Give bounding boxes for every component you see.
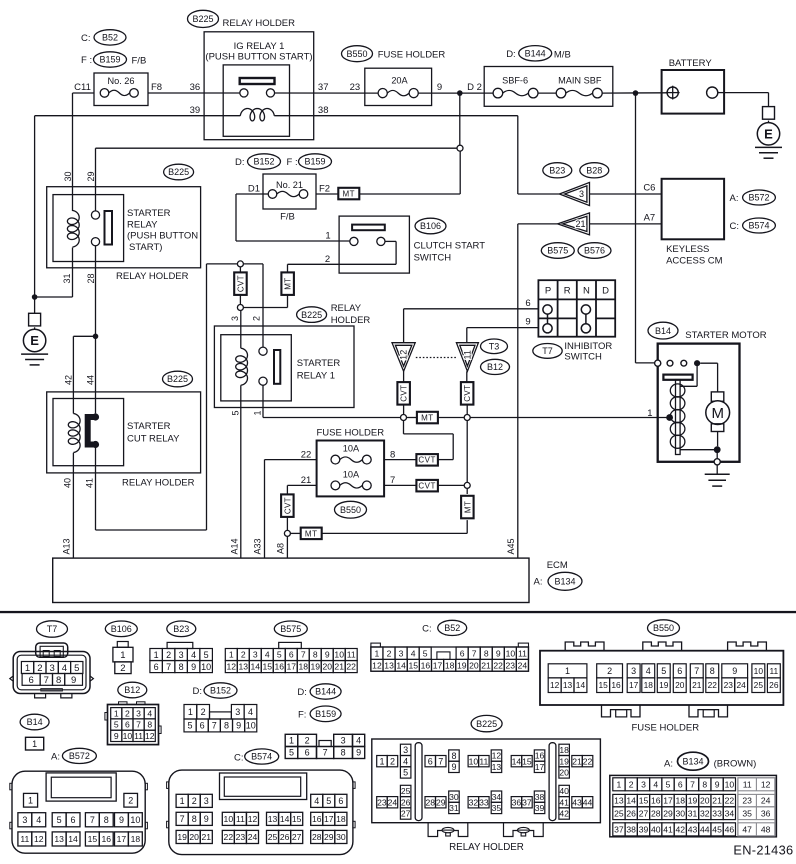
svg-text:C:: C: bbox=[422, 624, 432, 635]
connector B575 bbox=[225, 621, 357, 673]
svg-text:7: 7 bbox=[472, 648, 477, 658]
svg-text:6: 6 bbox=[200, 721, 205, 731]
svg-text:6: 6 bbox=[678, 779, 683, 789]
dotted link arrows 12-11 bbox=[416, 357, 457, 359]
svg-text:21: 21 bbox=[201, 832, 211, 842]
connector A: B134 (BROWN) bbox=[610, 752, 777, 837]
svg-text:19: 19 bbox=[559, 756, 569, 766]
svg-text:3: 3 bbox=[403, 745, 408, 755]
svg-text:24: 24 bbox=[248, 832, 258, 842]
svg-text:20A: 20A bbox=[391, 76, 408, 86]
svg-text:B144: B144 bbox=[525, 48, 546, 58]
label A: B572 bbox=[730, 190, 776, 205]
svg-text:RELAY 1: RELAY 1 bbox=[297, 371, 335, 382]
pin 30 bbox=[63, 171, 73, 181]
wire 6 (inhibitor P) bbox=[404, 309, 539, 343]
pin 42 bbox=[64, 375, 74, 385]
svg-text:14: 14 bbox=[250, 662, 260, 672]
svg-text:21: 21 bbox=[576, 219, 586, 229]
svg-text:10: 10 bbox=[754, 666, 764, 676]
svg-text:34: 34 bbox=[725, 808, 735, 818]
svg-text:(PUSH BUTTON START): (PUSH BUTTON START) bbox=[205, 52, 312, 63]
ground E (left) bbox=[21, 297, 48, 365]
pin A45 bbox=[506, 538, 516, 554]
svg-text:15: 15 bbox=[292, 814, 302, 824]
svg-text:9: 9 bbox=[119, 815, 124, 825]
connector label F: B159 F/B bbox=[81, 52, 146, 67]
svg-text:B572: B572 bbox=[69, 751, 90, 761]
pin A8 bbox=[276, 543, 286, 554]
wire 38 (IG relay coil right) bbox=[274, 116, 518, 194]
svg-text:8: 8 bbox=[341, 748, 346, 758]
CVT tag (wire 21) bbox=[281, 494, 294, 530]
pin 41 label bbox=[85, 478, 95, 488]
svg-text:2: 2 bbox=[629, 779, 634, 789]
svg-text:INHIBITOR: INHIBITOR bbox=[564, 341, 612, 352]
wire joint down to MT wire bbox=[459, 151, 461, 194]
svg-text:A:: A: bbox=[51, 752, 60, 763]
svg-text:38: 38 bbox=[626, 824, 636, 834]
svg-text:START): START) bbox=[129, 242, 162, 253]
svg-text:13: 13 bbox=[239, 662, 249, 672]
svg-text:13: 13 bbox=[492, 762, 502, 772]
svg-text:17: 17 bbox=[433, 660, 443, 670]
svg-text:13: 13 bbox=[54, 834, 64, 844]
connector B14 bbox=[20, 714, 49, 750]
pin 9 (inhibitor) bbox=[525, 317, 530, 328]
svg-text:41: 41 bbox=[85, 478, 95, 488]
svg-text:16: 16 bbox=[611, 680, 621, 690]
svg-text:D:: D: bbox=[297, 687, 307, 698]
junction battery feed bbox=[633, 90, 639, 96]
svg-text:7: 7 bbox=[90, 815, 95, 825]
svg-text:37: 37 bbox=[522, 797, 532, 807]
svg-text:STARTER: STARTER bbox=[127, 421, 171, 432]
svg-text:F/B: F/B bbox=[280, 212, 295, 223]
svg-text:24: 24 bbox=[736, 680, 746, 690]
node D2 bbox=[467, 82, 482, 93]
svg-text:9: 9 bbox=[191, 662, 196, 672]
svg-text:F8: F8 bbox=[151, 82, 162, 93]
svg-text:21: 21 bbox=[572, 756, 582, 766]
svg-text:E: E bbox=[30, 333, 39, 348]
svg-text:B574: B574 bbox=[748, 221, 769, 231]
svg-text:2: 2 bbox=[305, 736, 310, 746]
svg-text:B550: B550 bbox=[653, 623, 674, 633]
svg-text:7: 7 bbox=[166, 662, 171, 672]
svg-text:B225: B225 bbox=[167, 374, 188, 384]
svg-text:1: 1 bbox=[154, 650, 159, 660]
svg-text:42: 42 bbox=[64, 375, 74, 385]
svg-text:HOLDER: HOLDER bbox=[331, 315, 371, 326]
pin 40 bbox=[63, 478, 73, 488]
svg-text:T7: T7 bbox=[47, 624, 58, 634]
svg-text:43: 43 bbox=[572, 797, 582, 807]
connector T7 bbox=[10, 621, 94, 698]
connector B23 bbox=[150, 621, 213, 673]
node D1 bbox=[248, 184, 260, 195]
svg-text:18: 18 bbox=[675, 796, 685, 806]
svg-text:B23: B23 bbox=[549, 165, 565, 175]
svg-text:30: 30 bbox=[675, 808, 685, 818]
svg-text:5: 5 bbox=[188, 721, 193, 731]
pin 8 bbox=[390, 449, 395, 460]
wire F8 to IG relay pin 36 bbox=[148, 92, 240, 94]
pin A14 bbox=[229, 538, 239, 554]
joint circle (wire 7 node) bbox=[464, 482, 470, 488]
ECM (A: B134) bbox=[53, 558, 582, 602]
wire relay1 pin1 to starter motor wire bbox=[263, 385, 401, 418]
svg-text:1: 1 bbox=[565, 666, 570, 676]
wire pin 30 from C11 bbox=[72, 93, 74, 211]
svg-text:22: 22 bbox=[725, 796, 735, 806]
svg-text:20: 20 bbox=[469, 660, 479, 670]
svg-text:ACCESS CM: ACCESS CM bbox=[666, 255, 723, 266]
svg-text:15: 15 bbox=[522, 756, 532, 766]
svg-text:RELAY HOLDER: RELAY HOLDER bbox=[116, 271, 189, 282]
svg-text:1: 1 bbox=[114, 708, 119, 718]
fuse No. 26 (F/B) bbox=[94, 73, 148, 106]
pin 6 bbox=[525, 298, 530, 309]
svg-text:7: 7 bbox=[136, 720, 141, 730]
svg-text:13: 13 bbox=[563, 680, 573, 690]
svg-text:28: 28 bbox=[651, 808, 661, 818]
svg-text:4: 4 bbox=[62, 663, 67, 674]
svg-text:12: 12 bbox=[227, 662, 237, 672]
svg-text:35: 35 bbox=[492, 803, 502, 813]
svg-text:10A: 10A bbox=[343, 470, 360, 480]
svg-text:A:: A: bbox=[534, 577, 543, 588]
relay holder label B225 (IG relay) bbox=[188, 10, 296, 29]
svg-text:A:: A: bbox=[730, 193, 739, 204]
svg-text:5: 5 bbox=[666, 779, 671, 789]
fuse holder 10A (B550) bbox=[317, 441, 385, 497]
svg-text:A33: A33 bbox=[253, 538, 263, 554]
svg-text:5: 5 bbox=[57, 815, 62, 825]
svg-text:11: 11 bbox=[463, 350, 473, 359]
wire D2 down to joint bbox=[459, 93, 461, 145]
svg-text:A13: A13 bbox=[62, 538, 72, 554]
svg-text:2: 2 bbox=[325, 254, 330, 265]
svg-text:2: 2 bbox=[125, 708, 130, 718]
connector C: B52 bbox=[371, 620, 529, 671]
connector B106 bbox=[105, 621, 137, 674]
svg-text:8: 8 bbox=[451, 751, 456, 761]
svg-text:B550: B550 bbox=[340, 505, 361, 515]
svg-text:44: 44 bbox=[86, 375, 96, 385]
svg-text:B14: B14 bbox=[655, 326, 671, 336]
svg-text:9: 9 bbox=[204, 814, 209, 824]
relay K3 STARTER CUT RELAY bbox=[47, 392, 201, 488]
svg-text:16: 16 bbox=[421, 660, 431, 670]
svg-text:5: 5 bbox=[74, 663, 79, 674]
svg-text:21: 21 bbox=[712, 796, 722, 806]
wire MT to starter motor pin 1 bbox=[470, 417, 666, 419]
svg-text:20: 20 bbox=[322, 662, 332, 672]
svg-text:MT: MT bbox=[463, 501, 472, 513]
svg-text:47: 47 bbox=[742, 824, 752, 834]
connector C: B574 (drawing) bbox=[167, 749, 356, 855]
svg-text:No. 21: No. 21 bbox=[276, 180, 303, 190]
svg-text:33: 33 bbox=[712, 808, 722, 818]
wire pin 40 to ECM A13 bbox=[72, 453, 74, 558]
node C6 bbox=[643, 183, 655, 194]
svg-text:7: 7 bbox=[438, 756, 443, 766]
svg-text:40: 40 bbox=[651, 824, 661, 834]
svg-text:9: 9 bbox=[437, 82, 442, 93]
label T7 inhibitor bbox=[533, 344, 562, 359]
joint circle (CVT top) bbox=[237, 261, 243, 267]
svg-text:N: N bbox=[583, 286, 590, 297]
svg-text:2: 2 bbox=[192, 796, 197, 806]
connector D: B152 bbox=[184, 683, 257, 732]
svg-text:6: 6 bbox=[460, 648, 465, 658]
svg-text:12: 12 bbox=[550, 680, 560, 690]
svg-text:9: 9 bbox=[236, 721, 241, 731]
svg-text:5: 5 bbox=[231, 410, 241, 415]
svg-text:33: 33 bbox=[479, 797, 489, 807]
svg-text:RELAY HOLDER: RELAY HOLDER bbox=[223, 18, 296, 29]
svg-text:23: 23 bbox=[236, 832, 246, 842]
MT tag vertical (right riser) bbox=[461, 488, 474, 533]
svg-text:B14: B14 bbox=[27, 717, 43, 727]
connector labels D: B152 F: B159 bbox=[235, 154, 332, 169]
node C11 bbox=[74, 82, 91, 93]
svg-text:46: 46 bbox=[725, 824, 735, 834]
svg-text:2: 2 bbox=[387, 648, 392, 658]
wire pin 28 down bbox=[95, 246, 97, 414]
svg-text:45: 45 bbox=[712, 824, 722, 834]
svg-text:1: 1 bbox=[25, 663, 30, 674]
pin 7 bbox=[390, 475, 395, 486]
svg-text:42: 42 bbox=[559, 809, 569, 819]
svg-text:26: 26 bbox=[401, 797, 411, 807]
svg-text:4: 4 bbox=[265, 650, 270, 660]
svg-text:1: 1 bbox=[289, 736, 294, 746]
svg-text:CUT RELAY: CUT RELAY bbox=[127, 433, 180, 444]
svg-text:44: 44 bbox=[700, 824, 710, 834]
pin 39 bbox=[190, 105, 201, 116]
svg-text:B152: B152 bbox=[210, 686, 231, 696]
svg-text:B12: B12 bbox=[487, 362, 503, 372]
svg-text:31: 31 bbox=[449, 803, 459, 813]
svg-text:4: 4 bbox=[248, 707, 253, 717]
svg-text:3: 3 bbox=[253, 650, 258, 660]
svg-text:7: 7 bbox=[180, 814, 185, 824]
joint circle (A8 node) bbox=[284, 530, 290, 536]
svg-text:12: 12 bbox=[372, 660, 382, 670]
label B550 (10A holder) bbox=[335, 501, 367, 518]
svg-text:26: 26 bbox=[280, 832, 290, 842]
label B23 bbox=[543, 163, 572, 178]
svg-text:5: 5 bbox=[403, 768, 408, 778]
junction 28/44/42 bbox=[93, 334, 99, 340]
svg-text:31: 31 bbox=[688, 808, 698, 818]
wire pin 31 to ground node bbox=[35, 248, 73, 298]
arrow 12 (to CVT) bbox=[392, 343, 415, 372]
svg-text:18: 18 bbox=[131, 834, 141, 844]
svg-text:41: 41 bbox=[559, 797, 569, 807]
svg-text:M/B: M/B bbox=[554, 49, 571, 60]
wire pin 41 to relay1 pin 2 run bbox=[96, 448, 207, 530]
svg-text:A8: A8 bbox=[276, 543, 286, 554]
svg-text:17: 17 bbox=[535, 762, 545, 772]
svg-text:D:: D: bbox=[506, 49, 516, 60]
pin 9 bbox=[437, 82, 442, 93]
svg-text:B106: B106 bbox=[420, 221, 441, 231]
svg-text:(BROWN): (BROWN) bbox=[714, 759, 757, 770]
svg-text:9: 9 bbox=[732, 666, 737, 676]
svg-text:21: 21 bbox=[301, 475, 312, 486]
svg-text:11: 11 bbox=[743, 779, 752, 789]
svg-text:38: 38 bbox=[535, 792, 545, 802]
svg-text:4: 4 bbox=[646, 666, 651, 676]
svg-text:SBF-6: SBF-6 bbox=[502, 75, 528, 85]
svg-text:15: 15 bbox=[262, 662, 272, 672]
svg-text:24: 24 bbox=[761, 796, 771, 806]
label C: B574 bbox=[730, 218, 776, 233]
svg-text:19: 19 bbox=[659, 680, 669, 690]
svg-text:14: 14 bbox=[512, 756, 522, 766]
switch S1 CLUTCH START SWITCH bbox=[288, 216, 410, 273]
svg-text:7: 7 bbox=[694, 666, 699, 676]
arrow 11 (to CVT) bbox=[456, 343, 478, 372]
svg-text:10: 10 bbox=[224, 814, 234, 824]
svg-text:D:: D: bbox=[193, 686, 203, 697]
svg-text:A7: A7 bbox=[644, 212, 656, 223]
wire battery feed down to starter motor bbox=[636, 93, 655, 363]
arrow 21 (keyless A7) bbox=[518, 213, 590, 558]
svg-text:6: 6 bbox=[71, 815, 76, 825]
fuse SBF-6 and MAIN SBF (M/B) bbox=[484, 67, 613, 107]
svg-text:3: 3 bbox=[341, 736, 346, 746]
svg-text:36: 36 bbox=[761, 808, 771, 818]
arrow 3 (keyless C6) bbox=[518, 182, 590, 205]
wire relay1 pin5 to ECM A14 bbox=[240, 385, 242, 558]
wire SBF-6 to MAIN SBF bbox=[538, 92, 556, 94]
svg-text:6: 6 bbox=[525, 298, 530, 309]
svg-text:E: E bbox=[764, 126, 773, 141]
svg-text:STARTER MOTOR: STARTER MOTOR bbox=[685, 330, 766, 341]
pin 29 bbox=[86, 171, 96, 181]
svg-text:34: 34 bbox=[492, 792, 502, 802]
svg-text:27: 27 bbox=[292, 832, 302, 842]
svg-text:A14: A14 bbox=[229, 538, 239, 554]
svg-text:5: 5 bbox=[204, 650, 209, 660]
svg-text:(PUSH BUTTON: (PUSH BUTTON bbox=[127, 231, 198, 242]
svg-text:5: 5 bbox=[289, 748, 294, 758]
wire 8 chain: fuse to CVT riser bbox=[384, 421, 453, 466]
svg-text:7: 7 bbox=[212, 721, 217, 731]
svg-text:25: 25 bbox=[268, 832, 278, 842]
wire 22 to ECM A33 bbox=[265, 460, 317, 558]
wire 7 chain: fuse to CVT to node bbox=[384, 480, 464, 492]
wire C11 to fuse No.26 bbox=[73, 92, 95, 94]
svg-text:19: 19 bbox=[457, 660, 467, 670]
pin A33 bbox=[253, 538, 263, 554]
svg-text:22: 22 bbox=[301, 449, 312, 460]
svg-text:9: 9 bbox=[525, 317, 530, 328]
svg-text:1: 1 bbox=[180, 796, 185, 806]
svg-text:SWITCH: SWITCH bbox=[414, 252, 452, 263]
svg-text:18: 18 bbox=[559, 745, 569, 755]
wire 42 branch bbox=[73, 336, 95, 413]
relay K2 STARTER RELAY 1 bbox=[214, 326, 354, 408]
svg-text:B52: B52 bbox=[444, 623, 460, 633]
svg-text:2: 2 bbox=[201, 707, 206, 717]
svg-text:22: 22 bbox=[493, 660, 503, 670]
svg-text:1: 1 bbox=[379, 756, 384, 766]
svg-text:17: 17 bbox=[663, 796, 673, 806]
pin 23 bbox=[350, 82, 361, 93]
svg-text:40: 40 bbox=[559, 786, 569, 796]
svg-text:30: 30 bbox=[449, 792, 459, 802]
label B14 bbox=[648, 322, 678, 339]
pin 44 bbox=[86, 375, 96, 385]
svg-text:8: 8 bbox=[484, 648, 489, 658]
svg-text:37: 37 bbox=[318, 82, 329, 93]
svg-text:3: 3 bbox=[579, 189, 584, 199]
svg-text:KEYLESS: KEYLESS bbox=[666, 244, 709, 255]
svg-text:22: 22 bbox=[708, 680, 718, 690]
svg-text:10A: 10A bbox=[343, 444, 360, 454]
svg-text:F/B: F/B bbox=[132, 56, 147, 67]
svg-text:B52: B52 bbox=[102, 33, 118, 43]
svg-text:8: 8 bbox=[313, 650, 318, 660]
svg-text:B572: B572 bbox=[748, 193, 769, 203]
svg-text:RELAY: RELAY bbox=[127, 219, 158, 230]
battery bbox=[662, 58, 725, 114]
junction ground node bbox=[32, 294, 38, 300]
svg-text:32: 32 bbox=[469, 797, 479, 807]
svg-text:39: 39 bbox=[535, 803, 545, 813]
svg-text:A45: A45 bbox=[506, 538, 516, 554]
svg-text:B225: B225 bbox=[301, 310, 322, 320]
pin 31 bbox=[62, 273, 72, 283]
svg-text:3: 3 bbox=[204, 796, 209, 806]
svg-text:11: 11 bbox=[134, 731, 143, 741]
svg-text:2: 2 bbox=[120, 663, 125, 674]
svg-text:RELAY HOLDER: RELAY HOLDER bbox=[449, 842, 524, 853]
svg-text:7: 7 bbox=[390, 475, 395, 486]
svg-text:44: 44 bbox=[583, 797, 593, 807]
svg-text:D1: D1 bbox=[248, 184, 260, 195]
inhibitor switch caption bbox=[564, 341, 612, 363]
svg-text:3: 3 bbox=[235, 707, 240, 717]
svg-text:B159: B159 bbox=[304, 157, 325, 167]
wire IG relay pin 37 to fuse 20A pin 23 bbox=[274, 92, 378, 94]
svg-text:27: 27 bbox=[639, 808, 649, 818]
svg-text:16: 16 bbox=[312, 814, 322, 824]
svg-text:B574: B574 bbox=[251, 752, 272, 762]
svg-text:29: 29 bbox=[324, 832, 334, 842]
svg-text:20: 20 bbox=[675, 680, 685, 690]
svg-text:9: 9 bbox=[715, 779, 720, 789]
svg-text:B576: B576 bbox=[584, 246, 605, 256]
connector label C: B52 bbox=[81, 30, 126, 45]
svg-text:22: 22 bbox=[583, 756, 593, 766]
junction D2 bbox=[457, 90, 463, 96]
svg-text:29: 29 bbox=[436, 797, 446, 807]
svg-text:6: 6 bbox=[154, 662, 159, 672]
svg-text:F2: F2 bbox=[319, 184, 330, 195]
svg-text:18: 18 bbox=[445, 660, 455, 670]
svg-text:21: 21 bbox=[334, 662, 344, 672]
svg-text:BATTERY: BATTERY bbox=[669, 58, 713, 69]
svg-text:B23: B23 bbox=[173, 624, 189, 634]
connector A: B572 bbox=[10, 748, 148, 853]
ground (starter motor) bbox=[705, 465, 730, 486]
